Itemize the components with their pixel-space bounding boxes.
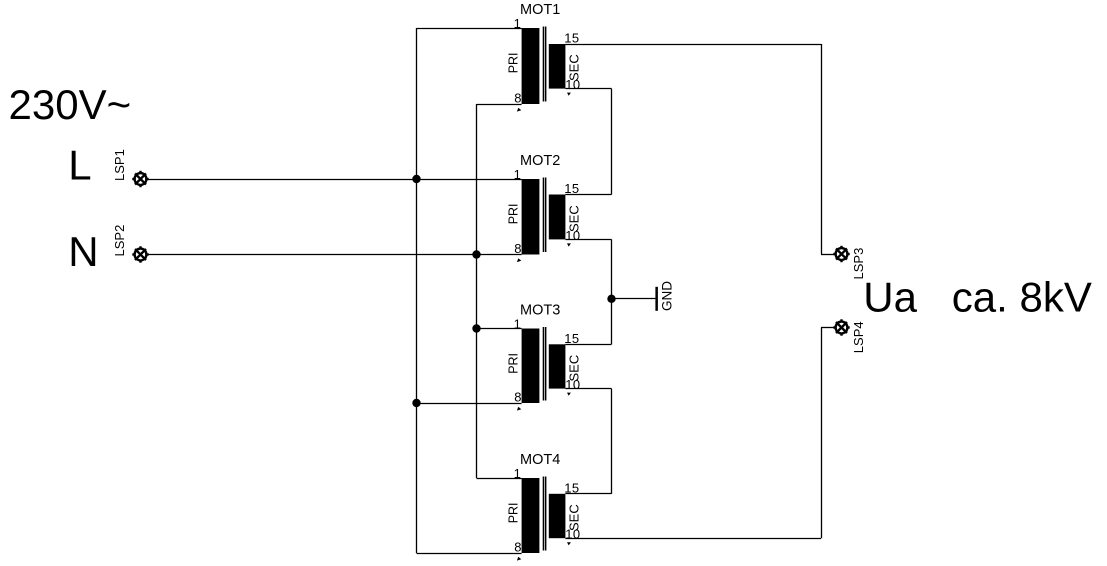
polarity mark at pin 8 of MOT4: [517, 557, 521, 561]
polarity mark at pin 8 of MOT1: [517, 108, 521, 112]
wire LSP3 stub: [821, 254, 834, 256]
wire MOT1 pin15 to right rail: [565, 44, 821, 46]
svg-text:GND: GND: [660, 281, 675, 311]
svg-text:1: 1: [514, 16, 521, 31]
svg-text:8: 8: [514, 241, 521, 256]
transformer MOT2 primary winding: [522, 179, 540, 255]
wire chain vertical 2: [611, 239, 613, 344]
svg-text:SEC: SEC: [567, 205, 582, 232]
svg-text:15: 15: [564, 31, 579, 46]
wire L row LSP1 to MOT2 pin1: [148, 179, 522, 181]
wire MOT4 pin15 run: [565, 493, 611, 495]
svg-text:8: 8: [514, 390, 521, 405]
polarity mark at pin 8 of MOT2: [517, 258, 521, 262]
svg-text:MOT2: MOT2: [520, 153, 560, 169]
wire MOT4 pin8 bottom run: [417, 553, 522, 555]
wire MOT4 pin10 run: [565, 538, 821, 540]
svg-text:230V~: 230V~: [9, 81, 132, 128]
svg-text:LSP4: LSP4: [851, 321, 866, 353]
svg-text:1: 1: [514, 316, 521, 331]
wire right rail lower vertical: [821, 328, 823, 539]
transformer MOT1 core line 1: [543, 27, 545, 102]
wire N rail vertical: [476, 104, 478, 478]
wire MOT3 pin10 run: [565, 388, 611, 390]
terminal LSP1: [132, 171, 148, 187]
transformer MOT4 primary winding: [522, 478, 540, 553]
svg-text:MOT4: MOT4: [520, 452, 560, 468]
wire MOT2 pin15 run: [565, 194, 611, 196]
svg-text:1: 1: [514, 167, 521, 182]
svg-text:PRI: PRI: [507, 52, 521, 73]
polarity mark at pin 10 of MOT1: [567, 93, 571, 96]
transformer MOT3 primary winding: [522, 329, 540, 404]
wire MOT1 pin1 top run: [417, 28, 522, 30]
junction L junction at MOT2 pin1 row: [412, 175, 420, 183]
wire chain vertical 3: [611, 389, 613, 494]
svg-text:SEC: SEC: [567, 504, 582, 531]
wire MOT4 pin1 run: [477, 478, 522, 480]
wire MOT3 pin15 run: [565, 344, 611, 346]
transformer MOT4 secondary winding: [549, 494, 566, 538]
wire MOT3 pin1 run: [477, 328, 522, 330]
svg-text:ca. 8kV: ca. 8kV: [952, 274, 1092, 321]
transformer MOT4 core line 1: [543, 477, 545, 551]
svg-text:LSP2: LSP2: [112, 225, 127, 257]
transformer MOT2 core line 2: [545, 178, 547, 253]
svg-text:LSP1: LSP1: [112, 149, 127, 181]
terminal LSP4: [833, 319, 849, 335]
transformer MOT3 secondary winding: [549, 344, 566, 388]
svg-text:15: 15: [564, 480, 579, 495]
svg-text:SEC: SEC: [567, 54, 582, 81]
svg-text:L: L: [68, 142, 91, 189]
svg-text:LSP3: LSP3: [851, 248, 866, 280]
svg-text:MOT1: MOT1: [520, 2, 560, 18]
wire MOT2 pin10 run: [565, 239, 611, 241]
transformer MOT2 core line 1: [543, 178, 545, 253]
transformer MOT1 core line 2: [545, 27, 547, 102]
junction GND junction: [607, 295, 615, 303]
svg-text:PRI: PRI: [507, 353, 521, 374]
svg-text:N: N: [68, 228, 98, 275]
polarity mark at pin 10 of MOT4: [567, 542, 571, 545]
polarity mark at pin 8 of MOT3: [517, 407, 521, 411]
svg-text:15: 15: [564, 181, 579, 196]
terminal LSP2: [132, 246, 148, 262]
svg-text:15: 15: [564, 331, 579, 346]
ground GND bar: [655, 287, 658, 311]
wire L rail vertical: [416, 28, 418, 553]
wire GND tap: [612, 298, 656, 300]
wire N row LSP2 to MOT2 pin8: [148, 254, 522, 256]
wire MOT1 pin10 run: [565, 88, 611, 90]
svg-text:PRI: PRI: [507, 203, 521, 224]
wire chain vertical 1: [611, 89, 613, 195]
svg-text:SEC: SEC: [567, 355, 582, 382]
transformer MOT2 secondary winding: [549, 195, 566, 240]
svg-text:MOT3: MOT3: [520, 303, 560, 319]
svg-text:PRI: PRI: [507, 502, 521, 523]
transformer MOT3 core line 1: [543, 327, 545, 401]
transformer MOT4 core line 2: [545, 477, 547, 551]
terminal LSP3: [833, 246, 849, 262]
svg-text:Ua: Ua: [863, 274, 917, 321]
polarity mark at pin 10 of MOT3: [567, 393, 571, 396]
svg-text:1: 1: [514, 466, 521, 481]
wire MOT1 pin8 run: [477, 104, 522, 106]
transformer MOT1 secondary winding: [549, 44, 566, 89]
junction N junction at MOT2 pin8 row: [472, 250, 480, 258]
junction L junction at MOT3 pin8 row: [412, 399, 420, 407]
transformer MOT3 core line 2: [545, 327, 547, 401]
transformer MOT1 primary winding: [522, 28, 540, 104]
wire MOT3 pin8 run: [417, 403, 522, 405]
wire LSP4 stub: [821, 327, 834, 329]
svg-text:8: 8: [514, 91, 521, 106]
wire right rail upper vertical: [821, 44, 823, 254]
polarity mark at pin 10 of MOT2: [567, 243, 571, 246]
svg-text:8: 8: [514, 540, 521, 555]
junction N junction at MOT3 pin1 row: [472, 324, 480, 332]
